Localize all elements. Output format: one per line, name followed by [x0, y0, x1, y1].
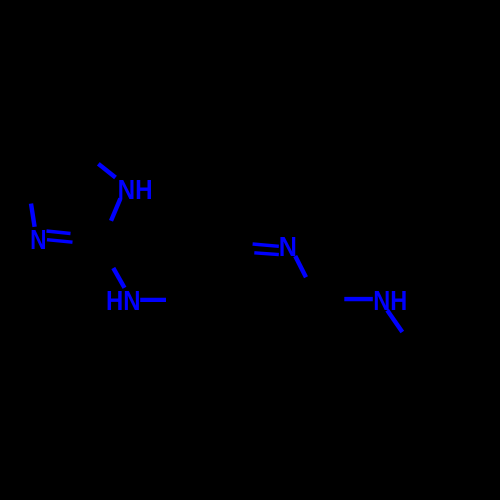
- svg-text:N: N: [30, 224, 46, 255]
- svg-text:NH: NH: [118, 174, 153, 205]
- svg-text:HN: HN: [106, 285, 141, 316]
